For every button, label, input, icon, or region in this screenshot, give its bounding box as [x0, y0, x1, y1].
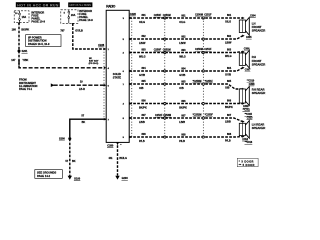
- svg-text:BK/PK: BK/PK: [21, 29, 29, 32]
- svg-text:137: 137: [11, 59, 16, 62]
- svg-text:*C252M: *C252M: [193, 114, 202, 117]
- svg-text:GY/B: GY/B: [179, 74, 185, 77]
- pin arrow into radio: [104, 118, 106, 121]
- connectors C308 / C310 RH rear +: [247, 81, 255, 86]
- svg-text:HOT AT ALL TIMES: HOT AT ALL TIMES: [70, 3, 92, 7]
- svg-text:LB/W: LB/W: [179, 42, 186, 45]
- svg-text:LB/W: LB/W: [225, 42, 232, 45]
- ground G100: [68, 176, 81, 181]
- svg-text:805: 805: [227, 80, 232, 83]
- svg-text:808: 808: [142, 133, 147, 136]
- wire 441 BK/LG radio case ground: [117, 145, 119, 175]
- radio bottom pin and connector C280: [107, 142, 121, 147]
- wire label 805 O/B near speaker: [225, 80, 232, 90]
- interior fuse panel box (fuse 10): [14, 11, 29, 23]
- note battery saver: [89, 58, 99, 65]
- svg-text:C251M: C251M: [163, 49, 171, 52]
- svg-text:803: 803: [181, 49, 186, 52]
- svg-text:BK/PK: BK/PK: [225, 106, 233, 109]
- radio left pin numbers: [108, 49, 110, 121]
- speaker LH front label: [252, 21, 266, 32]
- fuse F5 20A: [64, 10, 76, 23]
- wire label 805 O/B mid: [179, 80, 186, 90]
- svg-text:C253M: C253M: [163, 114, 171, 117]
- speaker LH rear label: [252, 123, 266, 131]
- RH front + wire circuit 803 W/LG: [123, 51, 245, 55]
- svg-text:C313: C313: [247, 117, 253, 119]
- svg-text:807: 807: [181, 114, 186, 117]
- legend box 3 door / 5 door: [237, 158, 258, 167]
- wire label 802 LB/W mid: [179, 35, 186, 45]
- svg-text:**C310: **C310: [247, 81, 255, 83]
- svg-text:S201: S201: [22, 50, 28, 53]
- inline connector junctions on wire 806: [164, 102, 205, 104]
- speaker RH rear label: [252, 88, 266, 96]
- connector C228 label at radio left: [98, 44, 105, 47]
- svg-text:*C250M: *C250M: [193, 80, 202, 83]
- wire label 801 O/LG mid: [179, 14, 186, 24]
- svg-text:P/LB: P/LB: [139, 140, 145, 143]
- inline connector junctions on wire 807: [164, 117, 205, 119]
- svg-text:O/LG: O/LG: [139, 21, 145, 24]
- wire label 803 W/LG mid: [179, 49, 186, 59]
- svg-text:15A: 15A: [22, 16, 27, 19]
- svg-text:SPEAKER: SPEAKER: [252, 126, 266, 130]
- svg-text:P/LB: P/LB: [179, 140, 185, 143]
- svg-text:802: 802: [142, 35, 147, 38]
- connector boundary line C250/C251 right: [202, 18, 204, 137]
- svg-text:LB/B: LB/B: [179, 121, 185, 124]
- svg-text:804: 804: [227, 67, 232, 70]
- svg-text:802: 802: [181, 35, 186, 38]
- radio unit: [106, 4, 129, 142]
- speaker RH rear: [239, 87, 249, 106]
- connector boundary line C228 right of radio: [131, 18, 133, 137]
- wire label 807 LB/B near radio: [139, 114, 146, 124]
- wire label 805 O/B near radio: [139, 80, 146, 90]
- svg-text:Y/BK: Y/BK: [22, 59, 28, 62]
- connector C304 LH front +: [250, 14, 256, 17]
- wire label 802 LB/W near speaker: [225, 35, 232, 45]
- connector boundary line C228 left of radio: [103, 49, 105, 119]
- RH rear - wire circuit 806 BK/PK: [123, 102, 245, 105]
- connector C228 at radio right: [130, 13, 137, 16]
- inline connector junctions on wire 804: [164, 70, 205, 72]
- LH rear + wire circuit 807 LB/B: [123, 117, 245, 123]
- connectors C314 / C316 LH rear -: [242, 138, 252, 144]
- wire 57 BK to ground G100: [69, 139, 71, 176]
- connector C306 RH front +: [244, 49, 250, 51]
- svg-text:441: 441: [109, 157, 114, 160]
- svg-text:BK/PK: BK/PK: [179, 107, 187, 110]
- I/P power distribution reference box: [26, 35, 61, 47]
- wire label 807 LB/B near speaker: [225, 114, 232, 124]
- wire 19 LB-R illumination: [51, 83, 106, 87]
- svg-text:SPEAKER: SPEAKER: [252, 62, 266, 66]
- svg-text:806: 806: [227, 100, 232, 103]
- svg-text:801: 801: [142, 14, 147, 17]
- svg-text:W/LG: W/LG: [225, 55, 232, 58]
- connector labels C250F C251M on wire 803: [154, 49, 171, 52]
- svg-text:**C311: **C311: [243, 109, 251, 111]
- svg-text:804: 804: [181, 67, 186, 70]
- connector labels C250F C251M on wire 801: [154, 14, 171, 17]
- svg-text:**C315: **C315: [245, 114, 253, 116]
- svg-text:C251M: C251M: [163, 14, 171, 17]
- svg-text:W/LG: W/LG: [179, 56, 186, 59]
- wire label 808 P/LB near radio: [139, 133, 146, 143]
- wire label 137 Y/BK: [11, 59, 28, 62]
- svg-text:BK/PK: BK/PK: [139, 107, 147, 110]
- svg-text:GY/B: GY/B: [225, 74, 231, 77]
- fuse 5 exit pin: [72, 23, 75, 25]
- LH front - wire circuit 802 LB/W: [123, 35, 245, 42]
- connector C305 LH front -: [246, 37, 252, 39]
- svg-text:808: 808: [181, 133, 186, 136]
- svg-text:C314: C314: [242, 138, 248, 141]
- svg-text:BK/LG: BK/LG: [119, 157, 127, 160]
- svg-text:STATE: STATE: [113, 75, 122, 79]
- splice S206: [59, 137, 71, 141]
- svg-text:G200: G200: [122, 177, 129, 180]
- ground G200: [115, 176, 128, 180]
- wire label 198 BK/P: [12, 29, 30, 32]
- wire label 808 P/LB mid: [179, 133, 186, 143]
- svg-text:PAGE 10-9: PAGE 10-9: [31, 20, 45, 24]
- svg-text:C280: C280: [107, 144, 114, 147]
- svg-text:G100: G100: [74, 177, 81, 180]
- wire 54 LG/Y from fuse 5: [73, 23, 106, 50]
- svg-text:O/LG: O/LG: [179, 21, 185, 24]
- svg-text:C309: C309: [243, 106, 249, 108]
- wire label 808 P/LB near speaker: [225, 133, 232, 143]
- wire label 807 LB/B mid: [179, 114, 186, 124]
- svg-text:**C316: **C316: [245, 142, 253, 144]
- wire label 804 GY/B near speaker: [225, 67, 232, 77]
- speaker LH rear: [239, 121, 249, 139]
- wire A horizontal run to radio pin 4: [19, 60, 106, 69]
- svg-text:C250M: C250M: [195, 48, 203, 51]
- svg-text:C251F: C251F: [204, 48, 212, 51]
- svg-text:806: 806: [142, 100, 147, 103]
- svg-text:S206: S206: [59, 138, 65, 141]
- inline connector junctions on wire 803: [164, 51, 205, 53]
- interior fuse panel box (fuse 5): [61, 10, 78, 23]
- wire label 54 LG/Y: [60, 30, 83, 33]
- svg-text:LB/B: LB/B: [139, 121, 145, 124]
- svg-text:807: 807: [142, 114, 147, 117]
- svg-text:C306: C306: [244, 49, 250, 51]
- svg-text:C307: C307: [245, 70, 251, 72]
- svg-text:SPEAKER: SPEAKER: [252, 91, 266, 95]
- svg-text:PAGE 10-9: PAGE 10-9: [79, 18, 93, 22]
- wire label 19 LB-R: [79, 81, 85, 92]
- svg-text:PAGE 74-1: PAGE 74-1: [19, 87, 33, 91]
- svg-text:LB/W: LB/W: [139, 42, 146, 45]
- speaker RH front: [239, 50, 249, 68]
- speaker LH front: [239, 17, 249, 35]
- svg-text:802: 802: [227, 35, 232, 38]
- svg-text:(PG 20-2): (PG 20-2): [89, 63, 99, 65]
- connector labels C252F C253M on wire 807: [155, 114, 171, 117]
- svg-text:C250F: C250F: [154, 49, 162, 52]
- svg-text:W/LG: W/LG: [139, 56, 146, 59]
- LH rear - wire circuit 808 P/LB: [123, 135, 245, 139]
- fuse 10 exit pin: [18, 23, 21, 25]
- svg-text:** 5 DOOR: ** 5 DOOR: [239, 163, 255, 167]
- svg-text:C228: C228: [130, 13, 137, 16]
- svg-text:O/B: O/B: [139, 87, 144, 90]
- inline connector junctions on wire 801: [164, 17, 205, 19]
- svg-text:O/B: O/B: [225, 87, 230, 90]
- svg-text:P/LB: P/LB: [225, 140, 231, 143]
- connector labels C250M C251F on wire 803 right: [195, 48, 212, 51]
- svg-text:LB-R: LB-R: [79, 88, 85, 91]
- from instrument illumination note: [19, 78, 38, 92]
- svg-text:O/B: O/B: [179, 87, 184, 90]
- svg-text:O/LG: O/LG: [225, 21, 231, 24]
- wire label 441 BK/LG: [109, 157, 127, 160]
- svg-text:797: 797: [60, 30, 65, 33]
- wire label 801 O/LG near radio: [139, 14, 146, 24]
- svg-text:805: 805: [181, 80, 186, 83]
- svg-text:GY/B: GY/B: [139, 74, 145, 77]
- svg-text:C252F: C252F: [155, 114, 163, 117]
- svg-text:803: 803: [142, 49, 147, 52]
- svg-text:803: 803: [227, 49, 232, 52]
- svg-text:C250F: C250F: [154, 14, 162, 17]
- svg-text:C304: C304: [250, 14, 256, 17]
- interior fuse panel label 2: [79, 9, 93, 22]
- wire label 802 LB/W near radio: [139, 35, 146, 45]
- power feed banner HOT AT ALL TIMES: [68, 2, 92, 7]
- inline connector junctions on wire 808: [164, 136, 205, 138]
- svg-text:BK: BK: [72, 160, 76, 163]
- svg-text:C250M: C250M: [195, 14, 203, 17]
- wire 198 BK/P from fuse 10: [18, 23, 20, 35]
- svg-text:20A: 20A: [71, 14, 76, 17]
- wire label 801 O/LG near speaker: [225, 14, 232, 24]
- svg-text:PAGES 10-5, 10-9: PAGES 10-5, 10-9: [28, 42, 50, 46]
- RH rear + wire circuit 805 O/B: [123, 83, 245, 91]
- see grounds reference box: [35, 170, 63, 179]
- svg-text:HOT IN ACC OR RUN: HOT IN ACC OR RUN: [17, 3, 59, 7]
- svg-text:*: *: [120, 144, 121, 147]
- fuse F10 15A: [15, 11, 26, 23]
- RH front - wire circuit 804 GY/B: [123, 67, 245, 74]
- svg-text:806: 806: [181, 100, 186, 103]
- wire label 806 BK/PK mid: [179, 100, 187, 110]
- LH front + wire circuit 801 O/LG: [123, 17, 245, 20]
- svg-text:808: 808: [227, 133, 232, 136]
- power feed banner HOT IN ACC OR RUN: [16, 2, 60, 7]
- wire continues below distribution box: [18, 35, 20, 67]
- inline connector junctions on wire 805: [164, 83, 205, 85]
- wire 57 BK radio ground: [70, 119, 106, 137]
- svg-text:PAGE 14-2: PAGE 14-2: [37, 174, 51, 178]
- connector boundary line C250/C251 left: [164, 18, 166, 137]
- connector labels *C252M *C253F on wire 807 right: [193, 114, 214, 117]
- connectors C313 / C315 LH rear +: [245, 114, 253, 119]
- wire label 57 BK lower: [65, 160, 75, 163]
- wire label 806 BK/PK near speaker: [225, 100, 233, 110]
- svg-text:RADIO: RADIO: [106, 4, 116, 8]
- connector C307 RH front -: [245, 70, 251, 72]
- wire label 804 GY/B mid: [179, 67, 186, 77]
- splice S201: [18, 50, 29, 54]
- svg-text:C228: C228: [98, 44, 105, 47]
- svg-text:807: 807: [227, 114, 232, 117]
- wire label 806 BK/PK near radio: [139, 100, 147, 110]
- svg-text:GY/LB: GY/LB: [75, 30, 83, 33]
- svg-text:805: 805: [142, 80, 147, 83]
- svg-text:BK: BK: [82, 121, 86, 124]
- svg-text:*C251F: *C251F: [205, 80, 214, 83]
- svg-text:C305: C305: [246, 37, 252, 39]
- wire label 804 GY/B near radio: [139, 67, 146, 77]
- svg-text:198: 198: [12, 29, 17, 32]
- svg-text:SEE GROUNDS: SEE GROUNDS: [37, 170, 56, 174]
- svg-text:C308: C308: [249, 84, 255, 86]
- svg-text:SPEAKER: SPEAKER: [252, 28, 266, 32]
- wire label 803 W/LG near radio: [139, 49, 146, 59]
- svg-text:801: 801: [181, 14, 186, 17]
- inline connector junctions on wire 802: [164, 38, 205, 40]
- connector labels *C250M *C251F on wire 805 right: [193, 80, 214, 83]
- svg-text:*C253F: *C253F: [205, 114, 214, 117]
- svg-text:SOLID: SOLID: [113, 72, 121, 76]
- svg-text:C251F: C251F: [204, 14, 212, 17]
- connector labels C250M C251F on wire 801 right: [195, 14, 212, 17]
- svg-text:LB/B: LB/B: [225, 121, 231, 124]
- interior fuse panel label: [31, 11, 45, 24]
- speaker RH front label: [252, 55, 266, 66]
- wire label 57 BK: [81, 115, 85, 124]
- svg-text:801: 801: [227, 14, 232, 17]
- connectors C309 / C311 RH rear -: [243, 106, 251, 111]
- wire label 803 W/LG near speaker: [225, 49, 232, 59]
- svg-text:804: 804: [142, 67, 147, 70]
